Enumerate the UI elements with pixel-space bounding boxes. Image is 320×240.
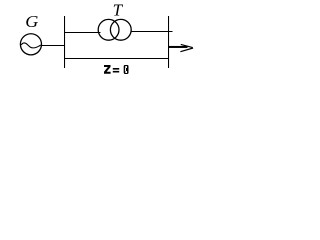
svg-text:G: G <box>25 12 39 31</box>
svg-text:T: T <box>113 1 124 20</box>
